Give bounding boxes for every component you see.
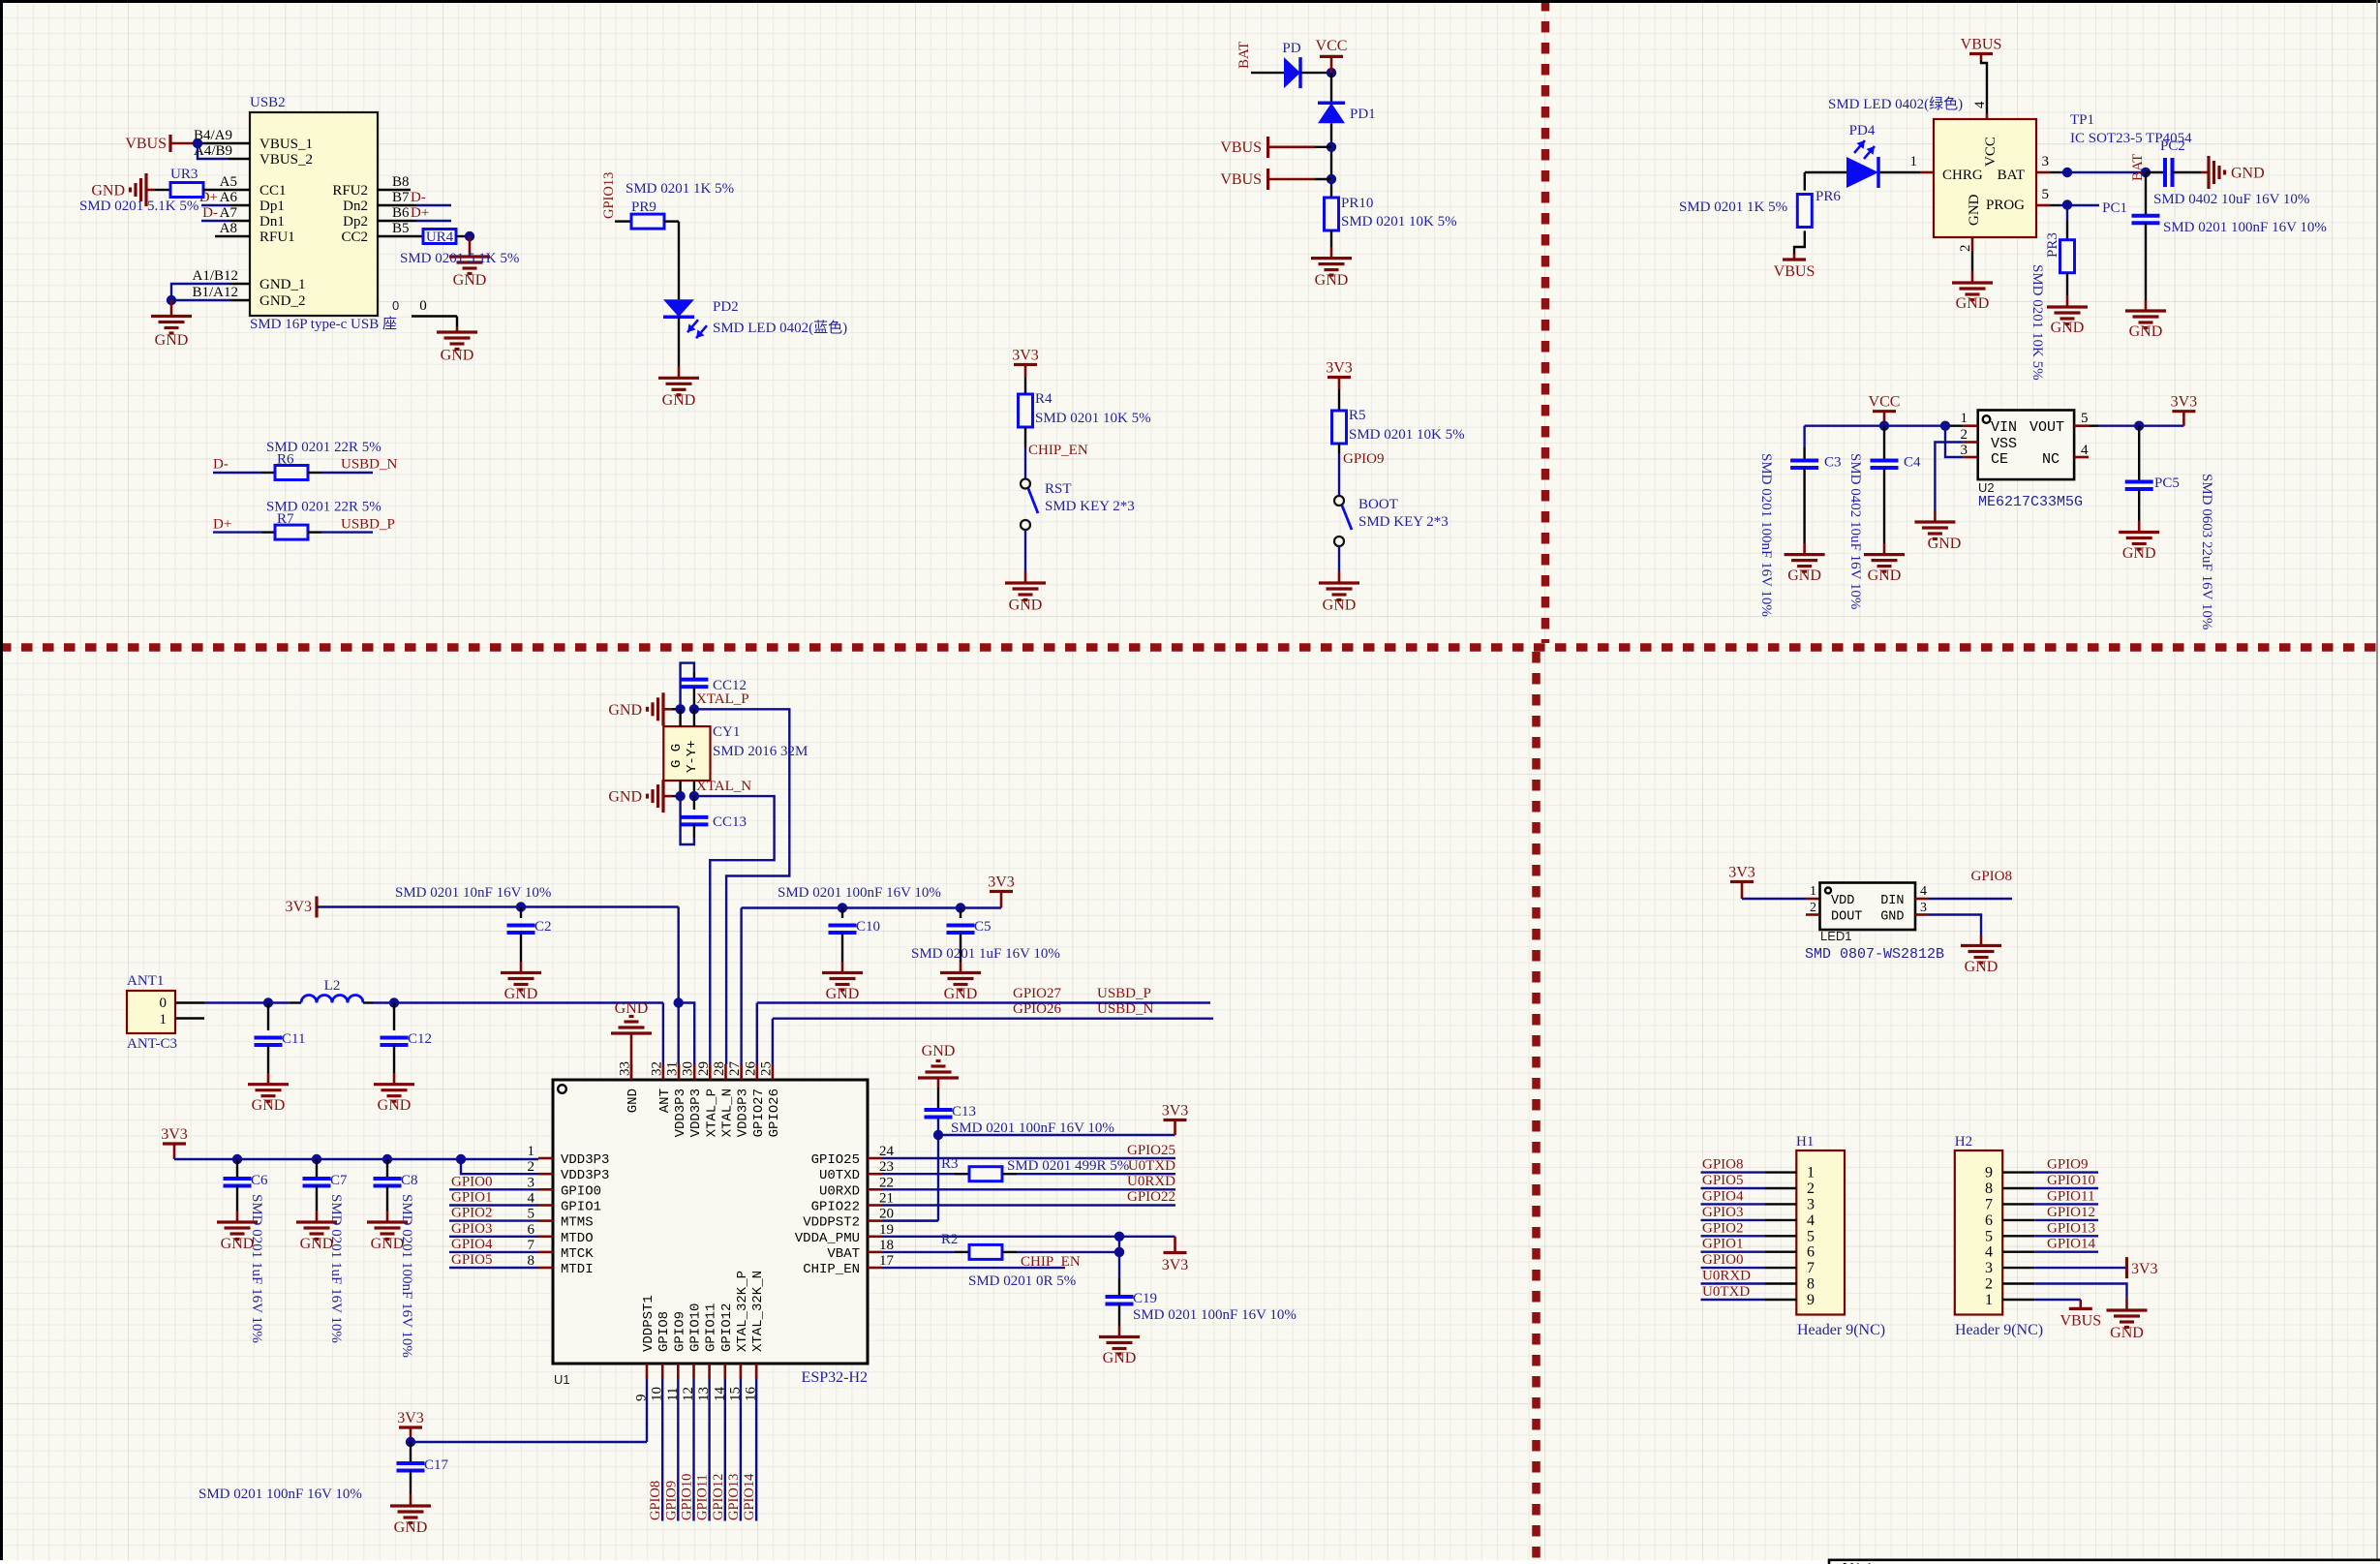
svg-text:H1: H1 [1796,1134,1814,1150]
svg-text:GPIO11: GPIO11 [2047,1188,2094,1204]
svg-text:GPIO14: GPIO14 [742,1473,757,1520]
svg-text:C17: C17 [424,1457,449,1473]
svg-text:VSS: VSS [1991,436,2017,452]
svg-text:3V3: 3V3 [1326,360,1353,377]
svg-text:VBUS: VBUS [1961,37,2002,53]
svg-text:C5: C5 [974,919,992,935]
svg-text:SMD 0807-WS2812B: SMD 0807-WS2812B [1805,946,1944,963]
svg-text:2: 2 [1807,1181,1815,1197]
svg-text:MTDO: MTDO [561,1231,594,1246]
svg-text:PD: PD [1282,41,1300,56]
svg-text:SMD 0201 100nF 16V 10%: SMD 0201 100nF 16V 10% [1758,453,1774,617]
svg-text:2: 2 [1958,245,1973,253]
svg-text:GND: GND [608,789,642,806]
svg-text:GND: GND [626,1089,641,1113]
svg-text:USBD_P: USBD_P [1097,986,1151,1001]
svg-text:PD4: PD4 [1849,123,1876,138]
svg-text:GPIO8: GPIO8 [1970,869,2012,884]
svg-text:GND: GND [608,702,642,719]
svg-text:GND: GND [922,1043,956,1059]
svg-text:VDDPST2: VDDPST2 [803,1215,860,1231]
svg-text:VIN: VIN [1991,419,2017,436]
svg-text:GND: GND [394,1519,428,1536]
svg-text:GPIO26: GPIO26 [1013,1001,1062,1017]
svg-text:GPIO12: GPIO12 [2047,1205,2095,1220]
svg-text:XTAL_32K_P: XTAL_32K_P [735,1271,750,1352]
svg-text:GPIO3: GPIO3 [1702,1205,1744,1220]
svg-text:GPIO8: GPIO8 [648,1481,663,1520]
svg-text:GPIO1: GPIO1 [1702,1237,1744,1252]
svg-text:L2: L2 [324,978,341,994]
svg-text:C12: C12 [408,1031,432,1047]
svg-text:H2: H2 [1955,1134,1972,1150]
svg-text:VDD3P3: VDD3P3 [688,1089,704,1137]
svg-text:Dp2: Dp2 [343,214,368,230]
svg-text:PR9: PR9 [631,199,656,215]
svg-text:Dn2: Dn2 [343,199,368,214]
svg-text:7: 7 [1985,1196,1993,1212]
svg-text:3: 3 [1961,443,1968,458]
svg-text:GND: GND [1967,194,1982,226]
svg-text:SMD 0402 10uF 16V 10%: SMD 0402 10uF 16V 10% [2153,192,2309,207]
svg-text:CHIP_EN: CHIP_EN [803,1262,860,1277]
svg-text:GND: GND [1928,536,1962,552]
svg-text:ME6217C33M5G: ME6217C33M5G [1978,494,2083,510]
svg-text:GND: GND [378,1097,412,1114]
svg-text:MTDI: MTDI [561,1262,594,1277]
svg-text:2: 2 [1961,427,1968,443]
svg-text:0: 0 [419,298,427,314]
svg-text:SMD 0201 10K 5%: SMD 0201 10K 5% [1349,427,1465,443]
svg-text:SMD 0201 100nF 16V 10%: SMD 0201 100nF 16V 10% [1133,1307,1297,1323]
svg-text:UR3: UR3 [170,167,198,182]
svg-text:GND: GND [441,348,474,364]
svg-text:VCC: VCC [1869,394,1901,411]
svg-text:D-: D- [213,457,229,473]
svg-text:VBUS: VBUS [1220,171,1262,188]
svg-text:VBUS_1: VBUS_1 [259,137,313,152]
svg-text:CY1: CY1 [713,724,740,740]
svg-text:CC1: CC1 [259,183,287,199]
svg-text:20: 20 [879,1207,894,1222]
svg-text:27: 27 [727,1061,743,1077]
svg-text:ANT: ANT [657,1089,673,1113]
svg-text:PROG: PROG [1986,198,2025,213]
svg-text:B5: B5 [392,221,410,236]
svg-text:U0TXD: U0TXD [819,1168,860,1183]
svg-text:SMD 0201 100nF 16V 10%: SMD 0201 100nF 16V 10% [951,1120,1114,1136]
svg-text:R4: R4 [1035,391,1053,407]
svg-text:GPIO25: GPIO25 [811,1152,860,1168]
svg-text:GND: GND [826,986,860,1002]
svg-text:GPIO22: GPIO22 [811,1200,860,1215]
svg-text:DIN: DIN [1880,894,1904,908]
svg-text:1: 1 [1910,154,1918,169]
svg-text:GPIO11: GPIO11 [704,1303,719,1352]
svg-text:NC: NC [2042,451,2060,468]
svg-text:SMD 0201 1uF 16V 10%: SMD 0201 1uF 16V 10% [911,946,1060,962]
svg-text:VBUS: VBUS [1774,263,1816,280]
svg-text:GPIO0: GPIO0 [1702,1252,1744,1268]
svg-text:GPIO10: GPIO10 [680,1474,695,1520]
svg-text:1: 1 [528,1144,535,1159]
svg-text:3V3: 3V3 [2131,1261,2158,1277]
svg-text:3V3: 3V3 [161,1126,188,1143]
svg-text:4: 4 [1985,1244,1993,1261]
svg-text:1: 1 [1810,884,1816,899]
svg-text:VDD3P3: VDD3P3 [561,1152,609,1168]
svg-text:GPIO13: GPIO13 [2047,1220,2095,1236]
svg-text:6: 6 [1807,1244,1815,1261]
svg-text:3V3: 3V3 [1162,1103,1189,1119]
svg-text:PC2: PC2 [2160,138,2185,154]
svg-text:GND: GND [944,986,978,1002]
svg-text:C7: C7 [330,1173,348,1188]
svg-text:GPIO9: GPIO9 [2047,1157,2089,1173]
svg-text:9: 9 [1807,1292,1815,1308]
svg-text:7: 7 [1807,1260,1815,1276]
svg-text:SMD 0201 100nF 16V 10%: SMD 0201 100nF 16V 10% [399,1194,414,1358]
svg-text:31: 31 [665,1061,681,1076]
svg-text:BAT: BAT [1236,42,1252,69]
svg-text:3V3: 3V3 [1162,1257,1189,1273]
svg-text:U0TXD: U0TXD [1128,1158,1175,1174]
svg-text:SMD 16P type-c USB 座: SMD 16P type-c USB 座 [250,316,397,332]
svg-text:C6: C6 [251,1173,268,1188]
svg-text:ANT-C3: ANT-C3 [127,1036,177,1052]
svg-text:USBD_N: USBD_N [341,457,398,473]
svg-text:GND: GND [2231,166,2265,182]
svg-text:PC1: PC1 [2102,200,2127,216]
svg-text:SMD 0201 10K 5%: SMD 0201 10K 5% [1341,214,1457,230]
svg-text:B6: B6 [392,205,410,221]
svg-text:GND: GND [1787,567,1821,584]
svg-text:GPIO4: GPIO4 [451,1237,493,1252]
svg-text:GPIO9: GPIO9 [672,1311,687,1352]
svg-text:XTAL_32K_N: XTAL_32K_N [750,1271,766,1352]
svg-text:BAT: BAT [1998,168,2025,183]
svg-text:TP1: TP1 [2070,112,2094,128]
svg-text:B1/A12: B1/A12 [192,285,238,300]
svg-text:SMD 0201 1K 5%: SMD 0201 1K 5% [1679,199,1787,215]
svg-text:SMD KEY 2*3: SMD KEY 2*3 [1358,514,1449,530]
svg-text:6: 6 [528,1222,535,1238]
svg-text:GPIO2: GPIO2 [1702,1220,1744,1236]
svg-text:PD1: PD1 [1350,107,1376,122]
svg-text:VOUT: VOUT [2029,419,2064,436]
svg-text:BAT: BAT [2130,154,2146,181]
svg-text:5: 5 [528,1207,535,1222]
svg-text:23: 23 [879,1159,894,1175]
svg-text:VDD3P3: VDD3P3 [673,1089,688,1137]
svg-text:PR6: PR6 [1816,189,1841,204]
svg-text:4: 4 [2081,443,2089,458]
svg-text:SMD 0201 100nF 16V 10%: SMD 0201 100nF 16V 10% [778,885,941,901]
svg-text:Dp1: Dp1 [259,199,285,214]
svg-text:GND: GND [2110,1325,2144,1341]
svg-text:VCC: VCC [1983,137,1999,167]
svg-text:0: 0 [392,298,399,313]
svg-text:GPIO12: GPIO12 [711,1474,726,1520]
svg-text:SMD 0201 100nF 16V 10%: SMD 0201 100nF 16V 10% [2163,220,2327,235]
svg-text:1: 1 [1807,1165,1815,1181]
svg-text:GND: GND [2122,545,2156,562]
svg-text:SMD LED 0402(绿色): SMD LED 0402(绿色) [1828,96,1963,112]
svg-text:G G: G G [669,744,685,768]
svg-text:A5: A5 [220,174,237,190]
svg-text:GND: GND [91,183,125,199]
svg-text:GND: GND [1103,1350,1137,1366]
svg-text:SMD LED 0402(蓝色): SMD LED 0402(蓝色) [713,320,847,336]
svg-text:XTAL_N: XTAL_N [720,1089,736,1137]
svg-text:GND: GND [1965,959,1999,975]
svg-text:8: 8 [528,1253,535,1269]
svg-text:2: 2 [528,1159,535,1175]
svg-text:GPIO12: GPIO12 [719,1303,735,1352]
svg-text:GPIO9: GPIO9 [1343,451,1385,467]
svg-text:CC2: CC2 [341,230,368,245]
svg-text:3V3: 3V3 [1728,865,1755,881]
svg-text:VDD3P3: VDD3P3 [561,1168,609,1183]
svg-text:22: 22 [879,1175,894,1190]
svg-text:C11: C11 [282,1031,305,1047]
svg-text:19: 19 [879,1222,894,1238]
svg-text:30: 30 [681,1061,696,1076]
svg-text:PR10: PR10 [1341,196,1373,211]
svg-text:C19: C19 [1133,1291,1157,1306]
svg-text:A6: A6 [220,190,238,205]
svg-text:A7: A7 [220,205,238,221]
svg-text:SMD 0201 499R 5%: SMD 0201 499R 5% [1007,1158,1129,1174]
svg-text:USBD_N: USBD_N [1097,1001,1154,1017]
svg-text:1: 1 [160,1012,168,1027]
svg-text:3: 3 [528,1175,535,1190]
svg-text:5: 5 [1985,1228,1993,1244]
svg-text:SMD KEY 2*3: SMD KEY 2*3 [1045,499,1135,514]
svg-text:C8: C8 [401,1173,418,1188]
svg-text:Dn1: Dn1 [259,214,285,230]
svg-text:GND: GND [2051,320,2085,336]
svg-text:VDDPST1: VDDPST1 [641,1295,656,1352]
svg-text:GPIO3: GPIO3 [451,1221,493,1237]
svg-text:GND: GND [2129,323,2163,340]
svg-text:D+: D+ [213,516,231,532]
svg-text:D-: D- [202,205,218,221]
svg-text:PR3: PR3 [2045,232,2060,258]
svg-text:GND: GND [1323,598,1357,614]
svg-text:GPIO10: GPIO10 [2047,1173,2095,1188]
svg-text:C4: C4 [1904,455,1921,471]
svg-text:Header 9(NC): Header 9(NC) [1955,1322,2043,1338]
svg-text:3: 3 [1920,901,1927,915]
svg-text:2: 2 [1810,901,1816,915]
svg-text:GND: GND [1868,567,1902,584]
svg-text:4: 4 [1920,884,1927,899]
svg-text:XTAL_N: XTAL_N [696,779,751,794]
svg-text:DOUT: DOUT [1831,910,1862,925]
svg-text:4: 4 [528,1191,535,1207]
svg-text:SMD 0201 1uF 16V 10%: SMD 0201 1uF 16V 10% [249,1194,264,1343]
svg-text:SMD 0201 5.1K 5%: SMD 0201 5.1K 5% [400,251,519,266]
svg-text:SMD 0201 100nF 16V 10%: SMD 0201 100nF 16V 10% [198,1487,362,1502]
svg-text:GPIO5: GPIO5 [451,1252,493,1268]
svg-text:GPIO0: GPIO0 [561,1183,601,1199]
svg-text:18: 18 [879,1238,894,1253]
svg-text:U0RXD: U0RXD [1127,1174,1175,1189]
svg-text:GND: GND [662,392,696,409]
svg-text:GND: GND [1315,272,1349,289]
svg-text:GPIO13: GPIO13 [726,1474,742,1520]
svg-text:U2: U2 [1978,480,1995,495]
svg-text:SMD 0201 5.1K 5%: SMD 0201 5.1K 5% [79,199,198,214]
svg-text:U0TXD: U0TXD [1702,1284,1750,1300]
svg-text:GND: GND [615,1000,649,1017]
svg-text:1: 1 [1985,1292,1993,1308]
svg-text:XTAL_P: XTAL_P [696,691,749,707]
svg-text:26: 26 [743,1061,758,1077]
svg-text:SMD 0201 0R 5%: SMD 0201 0R 5% [968,1273,1076,1289]
svg-text:C2: C2 [534,919,552,935]
svg-text:VDDA_PMU: VDDA_PMU [795,1231,860,1246]
svg-text:U0RXD: U0RXD [819,1183,860,1199]
svg-text:GND: GND [504,986,538,1002]
svg-text:CHRG: CHRG [1942,168,1983,183]
svg-text:GPIO8: GPIO8 [656,1311,672,1352]
svg-text:V1.1: V1.1 [1843,1561,1874,1564]
svg-text:A8: A8 [220,221,237,236]
svg-text:GPIO5: GPIO5 [1702,1173,1744,1188]
svg-text:8: 8 [1807,1276,1815,1293]
svg-text:PC5: PC5 [2154,475,2180,491]
svg-text:B8: B8 [392,174,410,190]
svg-text:8: 8 [1985,1181,1993,1197]
svg-text:GND: GND [1880,910,1904,925]
svg-text:A1/B12: A1/B12 [192,268,238,284]
svg-text:GND: GND [252,1097,286,1114]
svg-text:SMD 0201 1uF 16V 10%: SMD 0201 1uF 16V 10% [328,1194,344,1343]
svg-text:GPIO26: GPIO26 [767,1089,782,1137]
svg-text:VBUS: VBUS [1220,139,1262,156]
svg-text:CC13: CC13 [713,814,747,830]
svg-text:LED1: LED1 [1820,929,1852,943]
svg-text:GND: GND [155,332,189,349]
svg-text:RFU2: RFU2 [332,183,368,199]
svg-text:SMD 0201 10K 5%: SMD 0201 10K 5% [2029,264,2045,381]
svg-text:GPIO11: GPIO11 [695,1474,711,1520]
svg-text:4: 4 [1972,101,1988,108]
svg-text:GND_2: GND_2 [259,293,306,309]
svg-text:GPIO10: GPIO10 [688,1303,704,1352]
svg-text:3: 3 [1807,1196,1815,1212]
svg-text:C3: C3 [1824,455,1842,471]
svg-text:VCC: VCC [1316,38,1348,54]
svg-text:U0RXD: U0RXD [1702,1269,1751,1284]
svg-text:32: 32 [649,1061,664,1076]
svg-text:4: 4 [1807,1212,1815,1229]
svg-text:SMD 0603 22uF 16V 10%: SMD 0603 22uF 16V 10% [2199,474,2214,629]
svg-text:GND: GND [453,272,487,289]
svg-text:CE: CE [1991,451,2008,468]
svg-text:ESP32-H2: ESP32-H2 [802,1369,868,1386]
svg-text:VDD: VDD [1831,894,1854,908]
svg-text:VBUS: VBUS [125,136,167,152]
svg-text:GND: GND [1009,598,1043,614]
svg-text:0: 0 [160,996,168,1011]
svg-text:GPIO25: GPIO25 [1127,1143,1175,1158]
svg-text:BOOT: BOOT [1358,497,1398,512]
svg-text:VBUS_2: VBUS_2 [259,152,313,168]
svg-text:C13: C13 [952,1104,976,1119]
svg-text:3: 3 [1985,1260,1993,1276]
svg-text:GPIO9: GPIO9 [663,1481,679,1520]
svg-text:MTMS: MTMS [561,1215,594,1231]
svg-text:SMD 0201 10nF 16V 10%: SMD 0201 10nF 16V 10% [395,885,551,901]
svg-text:R5: R5 [1349,408,1366,423]
svg-text:3V3: 3V3 [988,874,1015,891]
svg-text:VBAT: VBAT [827,1246,860,1262]
svg-text:ANT1: ANT1 [127,973,164,989]
svg-text:GPIO1: GPIO1 [561,1200,601,1215]
svg-text:1: 1 [1961,411,1968,426]
svg-text:D-: D- [411,190,426,205]
svg-text:UR4: UR4 [426,230,454,245]
svg-text:B7: B7 [392,190,410,205]
svg-text:3: 3 [2042,154,2050,169]
svg-text:9: 9 [1985,1165,1993,1181]
svg-text:RFU1: RFU1 [259,230,295,245]
svg-text:GND: GND [1956,295,1990,312]
svg-text:SMD 0402 10uF 16V 10%: SMD 0402 10uF 16V 10% [1847,453,1863,609]
svg-text:GND_1: GND_1 [259,277,306,292]
svg-text:RST: RST [1045,481,1072,497]
svg-text:PD2: PD2 [713,299,739,315]
svg-text:R3: R3 [941,1156,959,1172]
svg-text:XTAL_P: XTAL_P [704,1089,719,1137]
svg-text:2: 2 [1985,1276,1993,1293]
svg-text:Header 9(NC): Header 9(NC) [1797,1322,1885,1338]
svg-text:D+: D+ [411,205,429,221]
svg-text:21: 21 [879,1191,894,1207]
svg-text:GPIO8: GPIO8 [1702,1157,1744,1173]
svg-text:3V3: 3V3 [285,899,312,915]
svg-text:SMD 0201 1K 5%: SMD 0201 1K 5% [626,181,734,197]
svg-text:GPIO4: GPIO4 [1702,1188,1744,1204]
svg-text:VDD3P3: VDD3P3 [736,1089,751,1137]
svg-text:GPIO2: GPIO2 [451,1206,493,1221]
svg-text:28: 28 [712,1061,727,1076]
svg-text:SMD 0201 10K 5%: SMD 0201 10K 5% [1035,411,1151,426]
svg-text:U1: U1 [554,1372,570,1387]
svg-text:GPIO1: GPIO1 [451,1190,493,1206]
svg-text:5: 5 [2081,411,2089,426]
svg-text:USBD_P: USBD_P [341,516,395,532]
svg-text:5: 5 [1807,1228,1815,1244]
svg-text:25: 25 [758,1061,774,1076]
svg-text:GPIO13: GPIO13 [601,172,617,219]
svg-text:29: 29 [696,1061,712,1076]
svg-text:C10: C10 [856,919,880,935]
svg-text:MTCK: MTCK [561,1246,594,1262]
svg-text:24: 24 [879,1144,895,1159]
svg-text:R2: R2 [941,1232,959,1247]
svg-text:GPIO27: GPIO27 [751,1089,767,1137]
svg-text:3V3: 3V3 [2171,394,2198,411]
svg-text:5: 5 [2042,187,2050,202]
svg-text:GPIO27: GPIO27 [1013,986,1062,1001]
svg-text:GPIO14: GPIO14 [2047,1237,2096,1252]
svg-text:GPIO0: GPIO0 [451,1174,493,1189]
svg-text:3V3: 3V3 [1012,348,1039,364]
